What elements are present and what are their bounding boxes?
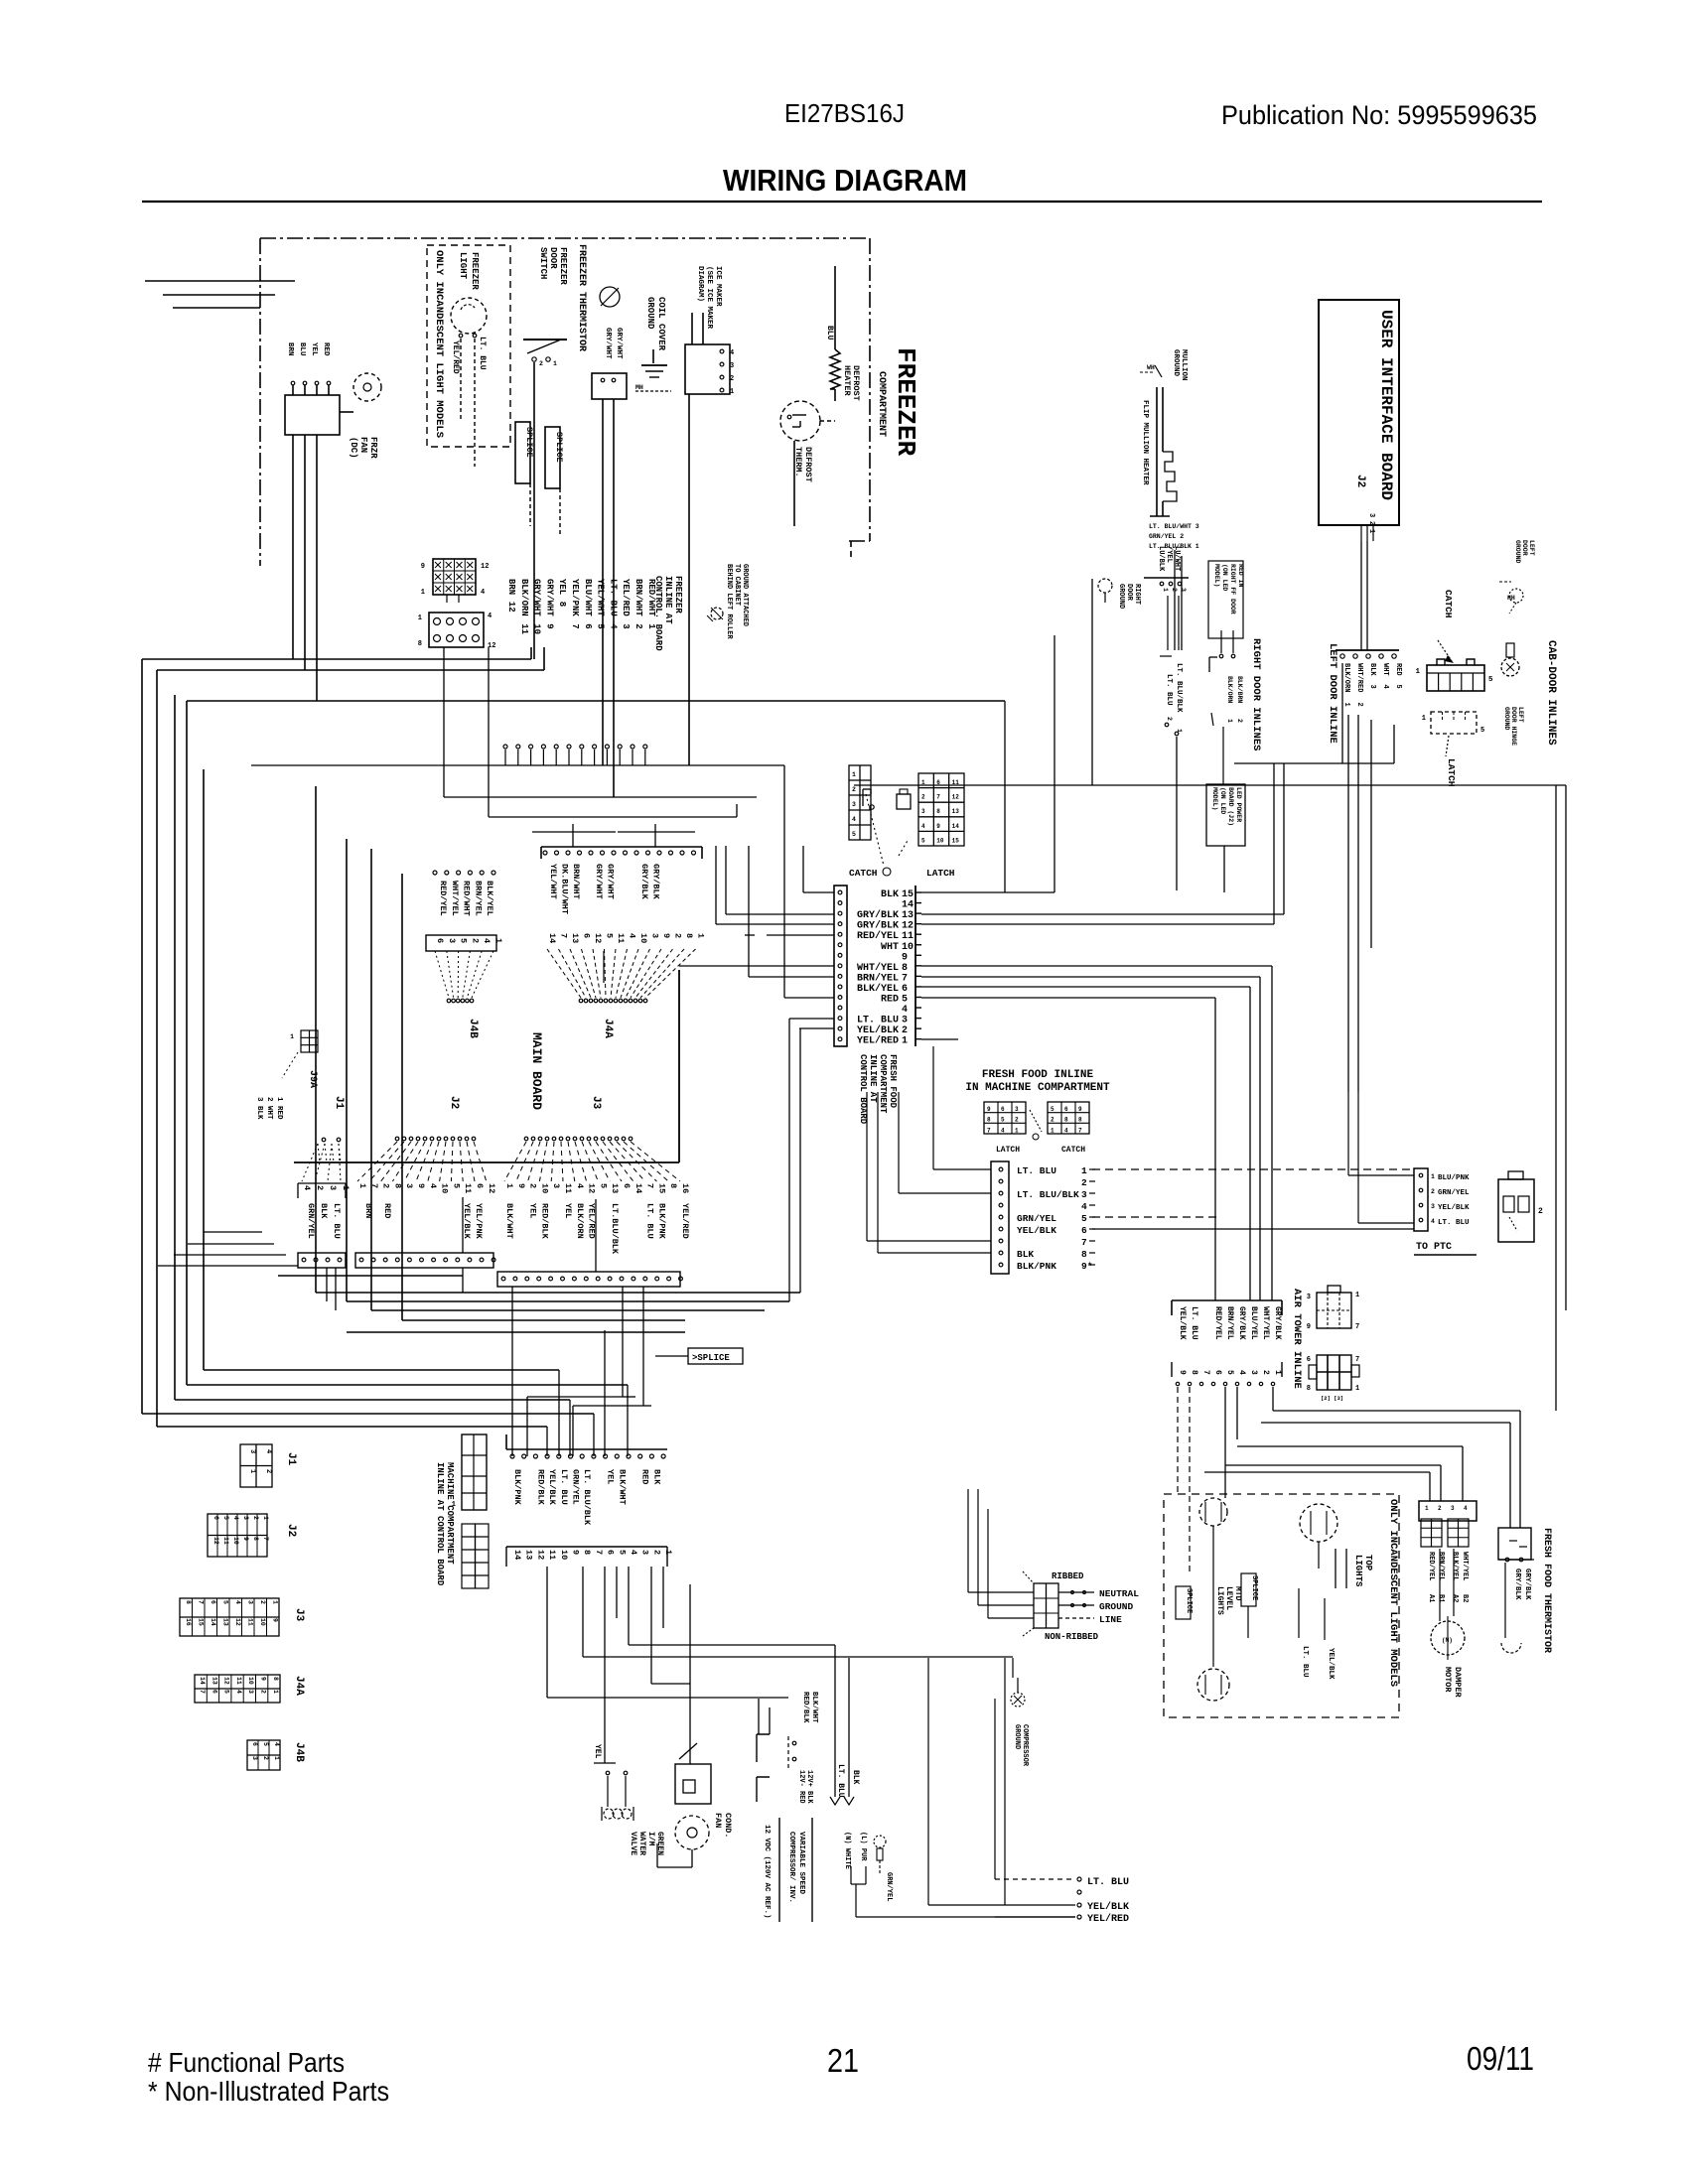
svg-text:1 RED: 1 RED <box>275 1097 283 1120</box>
freezer light dashed box - only incandescent light models <box>427 245 510 447</box>
svg-text:5: 5 <box>1480 727 1484 735</box>
svg-text:2: 2 <box>633 623 643 628</box>
svg-text:3: 3 <box>251 1756 258 1760</box>
svg-text:3: 3 <box>640 1550 650 1555</box>
svg-text:8: 8 <box>987 1117 991 1124</box>
svg-text:12: 12 <box>234 1618 241 1626</box>
svg-text:1: 1 <box>273 1756 280 1760</box>
connector J9A <box>282 1030 318 1088</box>
svg-text:3: 3 <box>921 808 925 815</box>
svg-text:GROUND: GROUND <box>1172 349 1180 377</box>
svg-text:(M): (M) <box>1442 1637 1453 1644</box>
connector J4B on main board <box>426 871 503 1038</box>
svg-text:1: 1 <box>1162 588 1169 592</box>
svg-text:YEL/WHT: YEL/WHT <box>596 579 606 616</box>
freezer light bulb <box>451 252 487 467</box>
right door wire labels LT.BLU group <box>1144 546 1189 890</box>
svg-text:1: 1 <box>730 388 734 396</box>
svg-text:1: 1 <box>902 1036 908 1047</box>
svg-text:BLK/ORN: BLK/ORN <box>519 579 529 616</box>
svg-text:BLU/WHT: BLU/WHT <box>583 579 593 616</box>
svg-text:/YEL: /YEL <box>1165 546 1173 563</box>
main board outline <box>294 970 679 1162</box>
svg-text:1: 1 <box>357 1183 367 1188</box>
wires user interface to left door inline <box>1360 541 1362 650</box>
svg-text:4: 4 <box>264 1449 272 1453</box>
machine compartment inline at control board connector <box>435 1434 673 1586</box>
svg-text:YEL/BLK: YEL/BLK <box>547 1469 557 1506</box>
svg-text:13: 13 <box>570 933 580 943</box>
mullion ground <box>1140 349 1188 381</box>
svg-text:GRY/BLK: GRY/BLK <box>1273 1306 1282 1340</box>
ptc plug symbol <box>1498 1171 1543 1242</box>
svg-text:5: 5 <box>598 1183 608 1188</box>
svg-text:09/11: 09/11 <box>1467 2040 1534 2077</box>
svg-text:WHT/YEL: WHT/YEL <box>1461 1552 1469 1580</box>
svg-text:BLK: BLK <box>319 1203 329 1219</box>
svg-text:BRN/YEL: BRN/YEL <box>1225 1306 1234 1340</box>
svg-text:7: 7 <box>262 1537 269 1541</box>
svg-text:14: 14 <box>952 823 960 830</box>
svg-text:12: 12 <box>223 1677 230 1685</box>
svg-text:4: 4 <box>235 1690 242 1694</box>
svg-text:LT.BLU/BLK: LT.BLU/BLK <box>610 1203 620 1255</box>
svg-text:FLIP MULLION HEATER: FLIP MULLION HEATER <box>1141 400 1149 485</box>
svg-text:LT. BLU: LT. BLU <box>478 337 487 370</box>
wires fresh food 9-pin to right <box>1092 1168 1414 1170</box>
wires air tower bottom <box>1177 1387 1179 1494</box>
svg-text:6: 6 <box>622 1183 632 1188</box>
svg-text:3: 3 <box>1015 1106 1019 1113</box>
wires into power cord <box>968 1591 1034 1593</box>
svg-text:FRESH FOOD: FRESH FOOD <box>888 1054 898 1109</box>
svg-text:1: 1 <box>341 1185 351 1190</box>
svg-text:9*: 9* <box>1081 1261 1092 1272</box>
svg-text:YEL/PNK: YEL/PNK <box>570 579 580 616</box>
svg-text:1: 1 <box>272 1600 279 1604</box>
svg-text:SPLICE: SPLICE <box>554 432 564 463</box>
page header <box>784 98 1537 130</box>
svg-text:11: 11 <box>235 1677 242 1685</box>
svg-text:7: 7 <box>936 794 940 801</box>
splice box lights 2 <box>1241 1573 1258 1638</box>
svg-text:3: 3 <box>621 623 631 628</box>
svg-text:1: 1 <box>418 614 422 622</box>
svg-text:LU/WHT: LU/WHT <box>1173 546 1181 571</box>
svg-text:14: 14 <box>633 1183 643 1193</box>
svg-text:1: 1 <box>493 938 503 943</box>
svg-text:6: 6 <box>210 1600 216 1604</box>
svg-text:COMPRESSOR: COMPRESSOR <box>1021 1724 1029 1767</box>
svg-text:FRZR: FRZR <box>368 437 378 459</box>
svg-text:GRY/BLK: GRY/BLK <box>857 920 899 932</box>
svg-text:GRN/YEL 2: GRN/YEL 2 <box>1149 533 1184 540</box>
svg-text:NEUTRAL: NEUTRAL <box>1099 1588 1139 1599</box>
svg-text:ICE MAKER: ICE MAKER <box>714 266 722 307</box>
svg-text:1: 1 <box>248 1469 256 1473</box>
svg-text:5: 5 <box>617 1550 627 1555</box>
air tower inline connector <box>1172 1289 1303 1389</box>
svg-text:7: 7 <box>987 1127 991 1134</box>
svg-text:BLK/ORN: BLK/ORN <box>575 1203 585 1239</box>
svg-text:7: 7 <box>645 1183 655 1188</box>
user interface board U1 <box>1319 300 1399 541</box>
svg-text:BLK/ORN: BLK/ORN <box>1226 676 1233 703</box>
fresh food door catch connector grid <box>849 765 891 879</box>
svg-text:LIGHT: LIGHT <box>458 252 468 280</box>
svg-text:5: 5 <box>605 933 615 938</box>
svg-text:1: 1 <box>1355 1292 1359 1299</box>
svg-text:3: 3 <box>328 1185 338 1190</box>
svg-text:[2] [3]: [2] [3] <box>1321 1395 1343 1402</box>
svg-text:13: 13 <box>952 808 960 815</box>
svg-text:EI27BS16J: EI27BS16J <box>784 98 905 128</box>
svg-text:4: 4 <box>921 823 925 830</box>
svg-text:LT. BLU: LT. BLU <box>1165 674 1173 706</box>
svg-text:GRY/WHT: GRY/WHT <box>594 864 604 899</box>
svg-text:6: 6 <box>1213 1370 1222 1375</box>
svg-text:8: 8 <box>185 1600 192 1604</box>
svg-text:7: 7 <box>902 973 908 984</box>
svg-text:5: 5 <box>852 831 856 838</box>
svg-text:YEL/RED: YEL/RED <box>621 579 631 616</box>
svg-text:11: 11 <box>247 1618 254 1626</box>
svg-text:10: 10 <box>638 933 648 943</box>
svg-text:YEL/BLK: YEL/BLK <box>857 1024 899 1036</box>
svg-text:4: 4 <box>481 589 485 597</box>
svg-text:RED: RED <box>382 1203 392 1218</box>
title WIRING DIAGRAM <box>142 163 1542 202</box>
svg-text:COND.: COND. <box>723 1813 733 1839</box>
coil cover ground symbol <box>635 297 671 391</box>
svg-text:GRY/BLK: GRY/BLK <box>1237 1306 1246 1340</box>
wires machine inline bottom drops <box>546 1567 548 1698</box>
svg-text:GRN/YEL: GRN/YEL <box>1438 1189 1470 1197</box>
svg-text:8: 8 <box>1064 1117 1068 1124</box>
svg-text:GROUND: GROUND <box>1503 707 1510 731</box>
svg-text:FREEZER: FREEZER <box>891 347 920 457</box>
svg-text:BLK/YEL: BLK/YEL <box>485 881 494 916</box>
svg-text:SWITCH: SWITCH <box>538 247 548 279</box>
svg-text:1: 1 <box>421 589 425 597</box>
svg-text:Publication No: 5995599635: Publication No: 5995599635 <box>1221 100 1537 130</box>
svg-text:YEL/RED: YEL/RED <box>587 1203 597 1239</box>
connector table J2 <box>208 1514 297 1557</box>
svg-text:1: 1 <box>663 1550 673 1555</box>
svg-text:GROUND: GROUND <box>645 297 655 330</box>
svg-text:12V+ BLK: 12V+ BLK <box>805 1770 813 1804</box>
svg-text:11: 11 <box>902 931 914 942</box>
svg-text:2: 2 <box>1166 717 1173 721</box>
splice boxes freezer <box>515 422 564 536</box>
svg-text:2: 2 <box>1538 1207 1543 1216</box>
svg-text:COMPARTMENT: COMPARTMENT <box>878 1054 888 1114</box>
svg-text:MACHINE COMPARTMENT: MACHINE COMPARTMENT <box>445 1462 455 1565</box>
svg-text:5: 5 <box>222 1516 229 1520</box>
svg-text:J4B: J4B <box>467 1019 479 1038</box>
splice box lights 1 <box>1176 1586 1193 1619</box>
svg-text:4: 4 <box>730 349 734 357</box>
svg-text:YEL: YEL <box>310 342 318 356</box>
svg-text:YEL/PNK: YEL/PNK <box>474 1203 484 1240</box>
svg-text:12: 12 <box>506 602 516 613</box>
svg-text:5: 5 <box>222 1600 229 1604</box>
svg-text:A1: A1 <box>1427 1594 1435 1602</box>
svg-text:13: 13 <box>902 910 914 921</box>
svg-text:BRN: BRN <box>506 579 516 595</box>
svg-text:3: 3 <box>1081 1189 1087 1200</box>
svg-text:DOOR: DOOR <box>1521 540 1528 556</box>
svg-text:1: 1 <box>1422 715 1426 723</box>
fresh food compartment inline at control board label <box>858 1054 898 1125</box>
svg-text:12: 12 <box>593 933 603 943</box>
svg-text:GRY/WHT: GRY/WHT <box>615 328 623 359</box>
machine compartment connector symbols <box>452 1434 489 1588</box>
svg-text:8: 8 <box>392 1183 402 1188</box>
svg-text:CATCH: CATCH <box>1443 590 1454 618</box>
svg-text:3: 3 <box>242 1516 249 1520</box>
svg-text:BLK/PNK: BLK/PNK <box>512 1469 522 1506</box>
svg-text:AIR TOWER INLINE: AIR TOWER INLINE <box>1291 1289 1303 1389</box>
svg-text:2: 2 <box>1438 1505 1442 1512</box>
svg-text:2: 2 <box>1431 1188 1435 1195</box>
svg-text:BLU: BLU <box>825 326 834 341</box>
svg-text:1: 1 <box>852 771 856 778</box>
svg-text:GRY/BLK: GRY/BLK <box>1513 1569 1521 1600</box>
svg-text:BRN/YEL: BRN/YEL <box>857 972 899 984</box>
defrost heater resistor <box>825 266 861 401</box>
svg-text:6: 6 <box>475 1183 485 1188</box>
svg-text:VALVE: VALVE <box>629 1832 637 1855</box>
svg-text:9: 9 <box>544 623 554 628</box>
svg-text:9: 9 <box>661 933 671 938</box>
svg-text:3: 3 <box>1180 588 1187 592</box>
svg-text:4: 4 <box>1431 1218 1435 1225</box>
svg-text:MOTOR: MOTOR <box>1443 1667 1453 1693</box>
svg-text:(SEE ICE MAKER: (SEE ICE MAKER <box>705 266 713 330</box>
svg-text:# Functional Parts: # Functional Parts <box>148 2047 345 2078</box>
svg-text:(L) PUR: (L) PUR <box>859 1832 867 1861</box>
svg-text:J3: J3 <box>293 1608 305 1622</box>
svg-text:10: 10 <box>539 1183 549 1193</box>
svg-text:B1: B1 <box>1437 1594 1445 1602</box>
svg-text:5: 5 <box>1001 1117 1005 1124</box>
svg-text:9: 9 <box>516 1183 526 1188</box>
svg-text:3: 3 <box>1307 1294 1311 1301</box>
svg-text:CATCH: CATCH <box>849 868 878 879</box>
svg-text:LIGHTS: LIGHTS <box>1215 1586 1224 1615</box>
svg-text:* Non-Illustrated Parts: * Non-Illustrated Parts <box>148 2076 389 2107</box>
svg-text:RED IN: RED IN <box>1237 564 1244 588</box>
yel label + ice maker stub <box>593 1744 628 1807</box>
svg-text:6: 6 <box>582 933 592 938</box>
svg-text:GRY/WHT: GRY/WHT <box>604 328 612 359</box>
svg-text:4: 4 <box>1464 1505 1468 1512</box>
page footer <box>148 2040 1534 2107</box>
svg-text:LT. BLU: LT. BLU <box>1017 1165 1056 1176</box>
svg-text:9: 9 <box>987 1106 991 1113</box>
wires left door inline down <box>1341 663 1343 763</box>
svg-text:3: 3 <box>248 1449 256 1453</box>
svg-text:LED POWER: LED POWER <box>1235 787 1242 822</box>
svg-text:BLK: BLK <box>1017 1249 1034 1260</box>
svg-text:3: 3 <box>447 938 457 943</box>
connector table J4A <box>195 1675 305 1703</box>
svg-text:YEL/BLK: YEL/BLK <box>1178 1306 1187 1340</box>
led power board (j2) (on led model) <box>1206 763 1245 892</box>
svg-text:LATCH: LATCH <box>1446 758 1457 787</box>
svg-text:RED: RED <box>1394 663 1402 676</box>
svg-text:1: 1 <box>262 1516 269 1520</box>
svg-text:YEL/BLK: YEL/BLK <box>1017 1225 1056 1236</box>
svg-text:YEL/BLK: YEL/BLK <box>1327 1648 1335 1680</box>
svg-text:8: 8 <box>936 808 940 815</box>
svg-text:5: 5 <box>596 623 606 628</box>
svg-text:13: 13 <box>222 1618 229 1626</box>
svg-text:TO PTC: TO PTC <box>1416 1242 1452 1253</box>
wire long vertical right bus <box>1555 785 1557 1411</box>
svg-text:(N) WHITE: (N) WHITE <box>843 1832 851 1869</box>
svg-text:10: 10 <box>936 837 944 844</box>
svg-text:6: 6 <box>1001 1106 1005 1113</box>
right door ground bulb <box>1098 579 1141 609</box>
svg-text:GRN/YEL: GRN/YEL <box>306 1203 316 1239</box>
svg-text:3: 3 <box>902 1016 908 1026</box>
svg-text:7: 7 <box>570 623 580 628</box>
svg-text:RED: RED <box>881 995 899 1006</box>
svg-text:TO CABINET: TO CABINET <box>733 564 741 606</box>
svg-text:5: 5 <box>262 1742 269 1746</box>
svg-text:7: 7 <box>1201 1370 1210 1375</box>
svg-text:BLK/BRN: BLK/BRN <box>1236 676 1243 703</box>
svg-text:BLU: BLU <box>298 342 306 356</box>
svg-text:4: 4 <box>902 1005 908 1016</box>
svg-text:DIAGRAM): DIAGRAM) <box>696 266 704 302</box>
top bus horizontals <box>142 658 531 660</box>
svg-text:RED/BLK: RED/BLK <box>539 1203 549 1240</box>
svg-text:11: 11 <box>463 1183 473 1193</box>
lower light bulb <box>1197 1669 1229 1701</box>
svg-text:CATCH: CATCH <box>1061 1146 1085 1155</box>
wires machine inline top feeds <box>526 1397 528 1456</box>
svg-text:11: 11 <box>616 933 626 943</box>
svg-text:4: 4 <box>1237 1370 1246 1375</box>
svg-text:12: 12 <box>212 1537 219 1545</box>
svg-text:1: 1 <box>290 1033 294 1040</box>
top lights connector grids <box>1421 1519 1469 1602</box>
svg-text:5: 5 <box>459 938 469 943</box>
svg-text:3: 3 <box>1431 1203 1435 1210</box>
svg-text:14: 14 <box>547 933 557 943</box>
svg-text:I/M: I/M <box>646 1832 655 1846</box>
svg-text:YEL/RED: YEL/RED <box>857 1035 899 1047</box>
svg-text:BRN/YEL: BRN/YEL <box>473 881 483 916</box>
catch connector cab door <box>1415 590 1493 691</box>
svg-text:LT. BLU: LT. BLU <box>1438 1219 1470 1227</box>
splice center <box>655 1348 743 1364</box>
svg-text:6: 6 <box>251 1742 258 1746</box>
svg-text:8: 8 <box>684 933 694 938</box>
svg-text:LT. BLU: LT. BLU <box>1087 1877 1129 1888</box>
svg-text:8: 8 <box>1307 1385 1311 1393</box>
svg-text:J2: J2 <box>448 1096 460 1109</box>
svg-text:HH: HH <box>1507 595 1515 602</box>
svg-text:2: 2 <box>260 1690 267 1694</box>
svg-text:LT. BLU: LT. BLU <box>332 1203 342 1239</box>
svg-text:6: 6 <box>583 623 593 628</box>
svg-text:BLK: BLK <box>1368 663 1376 676</box>
svg-text:6: 6 <box>902 984 908 995</box>
top lights connector box <box>1419 1501 1477 1521</box>
svg-text:6: 6 <box>1081 1225 1087 1236</box>
svg-text:2: 2 <box>539 360 543 367</box>
svg-text:GRY/BLK: GRY/BLK <box>1523 1569 1531 1600</box>
bus to machine compartment inline <box>142 1413 594 1415</box>
svg-text:7: 7 <box>1355 1356 1359 1364</box>
svg-text:15: 15 <box>902 889 914 900</box>
svg-text:1: 1 <box>1425 1505 1429 1512</box>
svg-text:LEFT DOOR INLINE: LEFT DOOR INLINE <box>1327 643 1338 744</box>
svg-text:FREEZER: FREEZER <box>558 247 568 285</box>
svg-text:GRY/WHT: GRY/WHT <box>606 864 616 899</box>
svg-text:BLK/WHT: BLK/WHT <box>504 1203 514 1239</box>
svg-text:GROUND ATTACHED: GROUND ATTACHED <box>741 564 749 626</box>
svg-text:J2: J2 <box>285 1524 297 1537</box>
svg-text:4: 4 <box>628 933 637 938</box>
svg-text:YEL/BLK: YEL/BLK <box>1438 1204 1470 1212</box>
svg-text:4: 4 <box>1001 1127 1005 1134</box>
svg-text:4: 4 <box>428 1183 438 1188</box>
svg-text:LEVEL: LEVEL <box>1224 1586 1233 1610</box>
svg-text:12: 12 <box>587 1183 597 1193</box>
svg-text:LINE: LINE <box>1099 1614 1122 1625</box>
svg-text:BLK/PNK: BLK/PNK <box>656 1203 666 1240</box>
svg-text:9: 9 <box>1178 1370 1187 1375</box>
svg-text:3: 3 <box>247 1600 254 1604</box>
svg-text:8: 8 <box>272 1677 279 1681</box>
svg-text:2: 2 <box>1015 1117 1019 1124</box>
svg-text:2: 2 <box>252 1516 259 1520</box>
svg-text:B2: B2 <box>1461 1594 1469 1602</box>
flip mullion heater <box>1141 387 1199 650</box>
svg-text:5: 5 <box>1488 676 1493 684</box>
svg-text:3: 3 <box>1368 685 1376 689</box>
svg-text:2: 2 <box>264 1469 272 1473</box>
svg-text:SPLICE: SPLICE <box>1250 1575 1258 1600</box>
connector table J3 <box>180 1598 305 1636</box>
svg-text:MODEL): MODEL) <box>1211 787 1218 810</box>
svg-text:8: 8 <box>557 602 567 607</box>
svg-text:6: 6 <box>606 1550 616 1555</box>
svg-text:8: 8 <box>418 640 422 648</box>
svg-text:RIGHT FF DOOR: RIGHT FF DOOR <box>1229 564 1236 614</box>
svg-text:YEL: YEL <box>557 579 567 595</box>
svg-text:1: 1 <box>696 933 706 938</box>
svg-text:13: 13 <box>524 1550 534 1560</box>
svg-text:1: 1 <box>1226 719 1233 723</box>
svg-text:1: 1 <box>272 1690 279 1694</box>
damper motor <box>1431 1549 1465 1699</box>
J3 wires down to machine inline <box>622 1287 624 1397</box>
svg-text:2 WHT: 2 WHT <box>265 1097 273 1120</box>
svg-text:5: 5 <box>1394 685 1402 689</box>
svg-text:J4A: J4A <box>602 1019 614 1038</box>
svg-text:FAN: FAN <box>358 437 368 453</box>
fresh food thermistor connector <box>1498 1528 1552 1653</box>
svg-text:15: 15 <box>656 1183 666 1193</box>
svg-text:2: 2 <box>852 786 856 793</box>
svg-text:J1: J1 <box>285 1452 297 1466</box>
